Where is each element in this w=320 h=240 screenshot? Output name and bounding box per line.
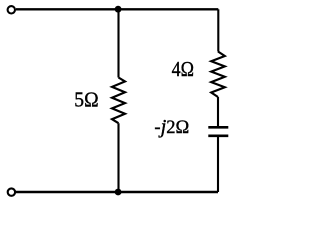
wire (right vertical, capacitor bottom plate to bottom wire) <box>217 137 219 192</box>
terminal T1 (top-left open circle) <box>8 6 15 13</box>
resistor 4-ohm (vertical zigzag) <box>211 52 225 98</box>
svg-text:4Ω: 4Ω <box>172 57 194 81</box>
node B (bottom junction dot) <box>115 189 122 196</box>
svg-text:-j2Ω: -j2Ω <box>154 116 189 138</box>
wire (middle vertical, 5-ohm resistor bottom to node B) <box>117 123 119 192</box>
svg-text:5Ω: 5Ω <box>74 87 98 111</box>
capacitor -j2-ohm (bottom plate) <box>208 134 228 137</box>
capacitor -j2-ohm (top plate) <box>208 126 228 129</box>
wire (right vertical, top corner down to 4-ohm resistor top) <box>217 9 219 51</box>
wire (bottom horizontal from T2 to bottom-right corner) <box>16 191 218 193</box>
wire (top horizontal from T1 to top-right corner) <box>16 8 218 10</box>
wire (right vertical, 4-ohm resistor bottom to capacitor top plate) <box>217 97 219 126</box>
wire (middle vertical, node A down to 5-ohm resistor top) <box>117 9 119 77</box>
terminal T2 (bottom-left open circle) <box>8 188 15 195</box>
resistor 5-ohm (vertical zigzag) <box>112 78 125 124</box>
node A (top junction dot) <box>115 6 122 13</box>
